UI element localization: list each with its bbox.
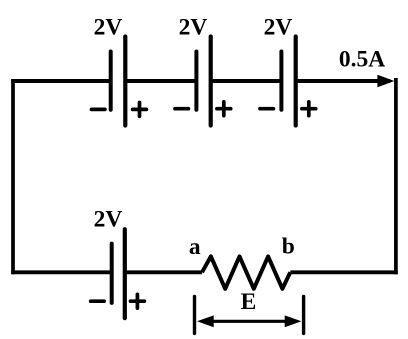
battery B3 negative plate (279, 52, 283, 110)
wire between battery B3 and right corner (296, 79, 390, 83)
svg-text:2V: 2V (94, 206, 123, 232)
svg-text:b: b (282, 233, 295, 259)
battery B4 plus sign (131, 294, 145, 308)
wire between battery B2 and B3 (211, 79, 282, 83)
resistor E zigzag (202, 256, 290, 288)
battery B2 minus sign (175, 107, 188, 111)
battery B3 positive plate (294, 37, 298, 126)
battery B4 positive plate (123, 229, 127, 318)
battery B4 negative plate (110, 244, 114, 303)
battery B2 positive plate (209, 37, 213, 126)
dimension right tick bar (302, 297, 305, 334)
svg-text:2V: 2V (264, 15, 293, 41)
battery B3 minus sign (260, 107, 273, 111)
wire bottom left segment (11, 270, 112, 274)
battery B1 negative plate (109, 52, 113, 110)
dimension double arrow shaft (210, 320, 288, 323)
svg-text:0.5A: 0.5A (339, 47, 385, 73)
battery B2 negative plate (194, 52, 198, 110)
battery B4 minus sign (91, 299, 104, 303)
svg-text:2V: 2V (179, 15, 208, 41)
current arrowhead 0.5A (377, 75, 394, 88)
dimension left arrowhead (197, 315, 214, 327)
svg-text:2V: 2V (94, 15, 123, 41)
wire left vertical (11, 79, 15, 274)
battery B1 minus sign (92, 108, 105, 112)
wire resistor to bottom right corner (290, 270, 398, 274)
wire battery B4 to resistor (125, 270, 202, 274)
wire top left segment (11, 79, 111, 83)
battery B3 plus sign (302, 102, 316, 116)
svg-text:E: E (241, 289, 257, 315)
dimension left tick bar (193, 297, 196, 334)
svg-text:a: a (189, 234, 201, 260)
battery B1 positive plate (123, 37, 127, 126)
wire right vertical (394, 78, 398, 274)
battery B2 plus sign (217, 102, 231, 116)
wire between battery B1 and B2 (125, 79, 196, 83)
dimension right arrowhead (285, 315, 302, 327)
battery B1 plus sign (133, 103, 147, 117)
